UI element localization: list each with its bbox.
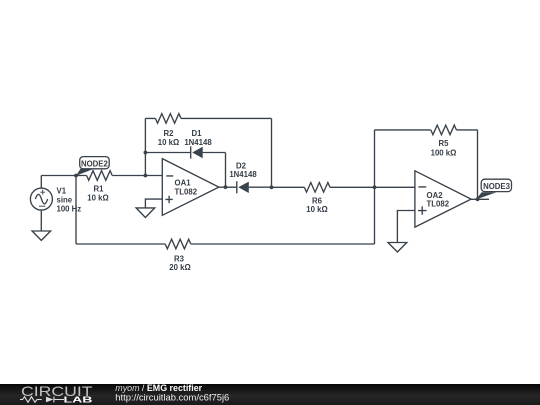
svg-text:R2: R2 — [164, 129, 175, 138]
svg-text:10 kΩ: 10 kΩ — [87, 193, 108, 202]
svg-text:V1: V1 — [57, 187, 67, 196]
svg-text:100 Hz: 100 Hz — [57, 205, 82, 214]
svg-text:http://circuitlab.com/c6f75j6: http://circuitlab.com/c6f75j6 — [115, 392, 229, 403]
svg-text:1N4148: 1N4148 — [184, 138, 212, 147]
svg-text:10 kΩ: 10 kΩ — [158, 138, 179, 147]
svg-text:NODE3: NODE3 — [483, 182, 511, 191]
svg-text:sine: sine — [57, 195, 73, 204]
svg-text:R5: R5 — [439, 139, 450, 148]
svg-text:D1: D1 — [192, 129, 203, 138]
svg-text:OA1: OA1 — [175, 179, 192, 188]
svg-text:20 kΩ: 20 kΩ — [169, 263, 190, 272]
svg-text:1N4148: 1N4148 — [229, 170, 257, 179]
svg-text:R6: R6 — [312, 196, 323, 205]
svg-text:TL082: TL082 — [175, 187, 198, 196]
svg-text:100 kΩ: 100 kΩ — [431, 149, 457, 158]
svg-text:R1: R1 — [94, 185, 105, 194]
svg-text:10 kΩ: 10 kΩ — [306, 205, 327, 214]
svg-text:NODE2: NODE2 — [81, 159, 109, 168]
svg-text:LAB: LAB — [64, 395, 94, 404]
svg-text:TL082: TL082 — [427, 200, 450, 209]
